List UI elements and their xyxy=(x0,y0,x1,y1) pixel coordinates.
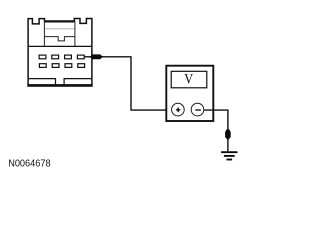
svg-text:V: V xyxy=(184,71,193,87)
svg-text:N0064678: N0064678 xyxy=(8,159,51,170)
